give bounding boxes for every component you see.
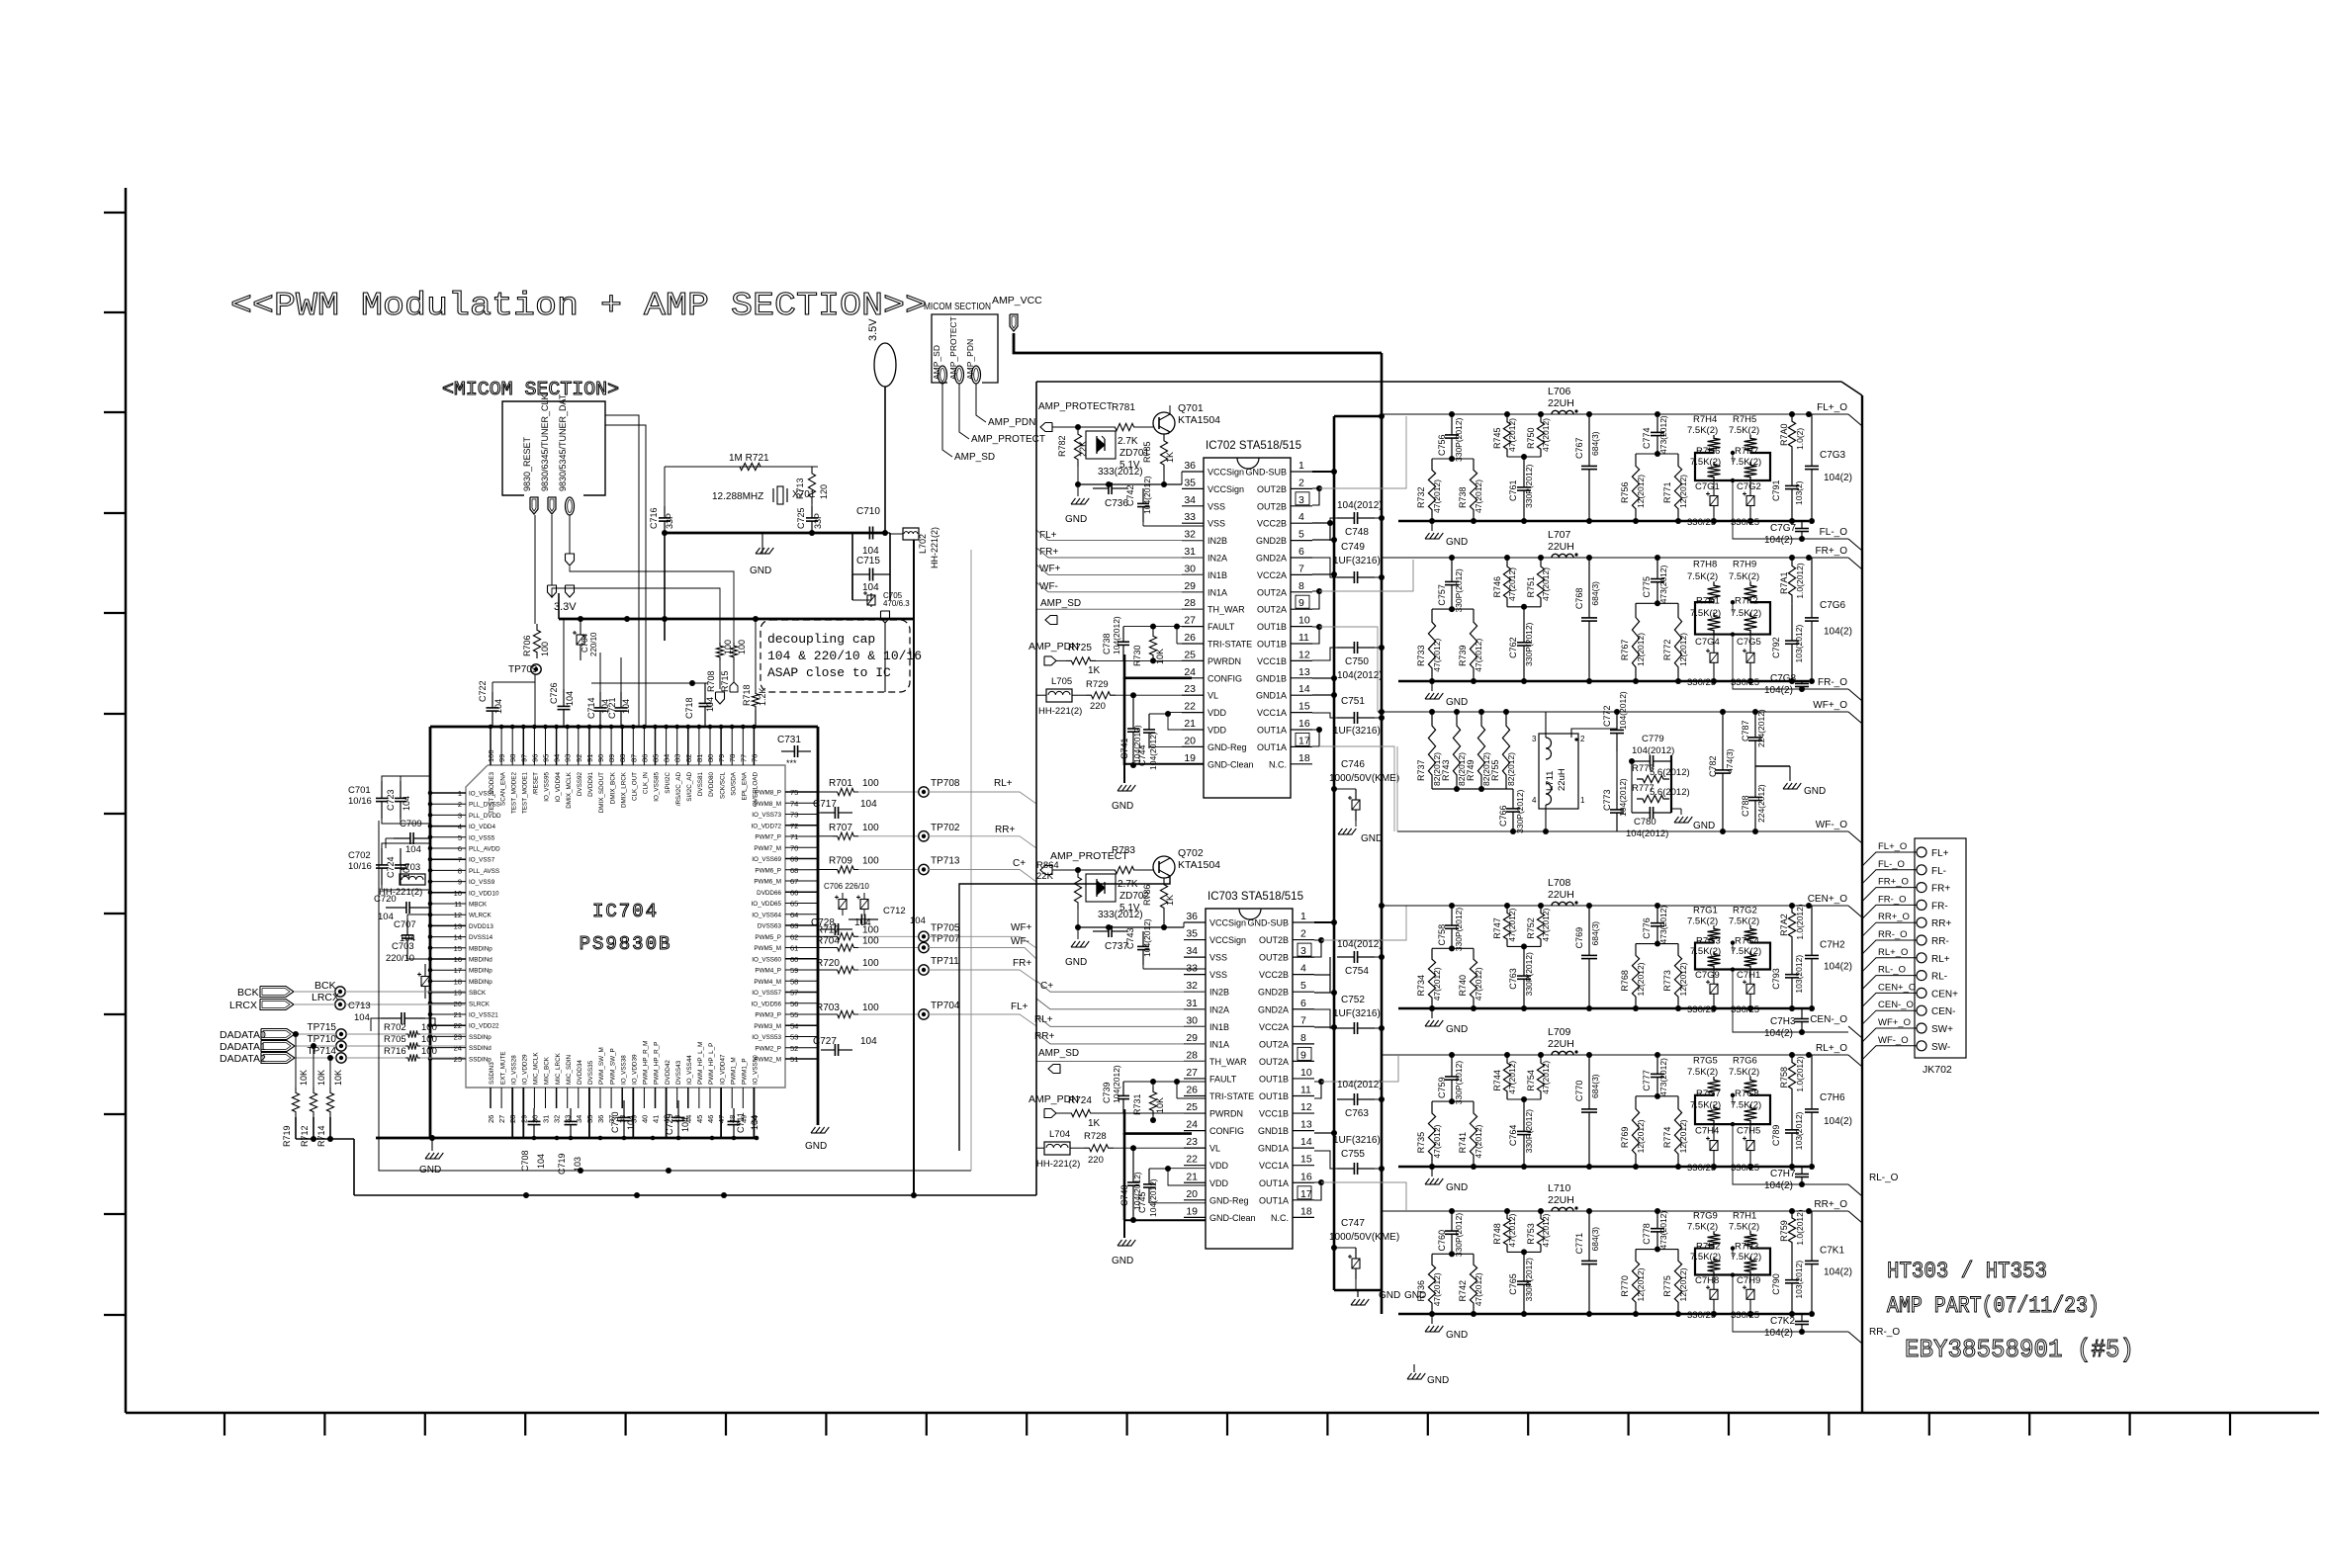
wire RR minus drop (1733, 1275, 1770, 1332)
svg-text:76: 76 (750, 754, 759, 762)
IC704 pin 24 SSDINd (430, 1047, 466, 1049)
IC704 pin 97 TEST_MODE1 (522, 727, 524, 765)
svg-text:45: 45 (695, 1115, 704, 1123)
svg-text:RL+_O: RL+_O (1878, 947, 1908, 958)
svg-text:C770: C770 (1574, 1081, 1584, 1102)
svg-text:1UF(3216): 1UF(3216) (1333, 1008, 1381, 1019)
svg-text:VCC2B: VCC2B (1257, 519, 1287, 529)
wire CEN-_O to JK702 (1862, 1010, 1917, 1024)
capacitor C728 104 (821, 928, 835, 930)
svg-text:GND: GND (1065, 957, 1087, 968)
svg-text:HT303 / HT353: HT303 / HT353 (1887, 1259, 2047, 1284)
IC702 pin 36 VCCSign (1182, 471, 1204, 473)
svg-text:100: 100 (862, 1002, 879, 1013)
IC704 pin 15 MBDINp (430, 947, 466, 949)
svg-text:9: 9 (1300, 1049, 1306, 1061)
decoupling cap note box (760, 620, 910, 692)
wire OUT1B to WF filter (1319, 627, 1378, 712)
IC704 pin 90 DMIX_SDOUT (599, 727, 601, 765)
svg-text:R708: R708 (706, 670, 716, 692)
IC702 pin 3 OUT2B (1291, 505, 1312, 507)
node bar CEN c1 (1432, 947, 1474, 949)
svg-text:DVDD42: DVDD42 (665, 1060, 671, 1085)
wire L711 out right top (1571, 729, 1617, 738)
IC702 pin 22 VDD (1182, 712, 1204, 714)
svg-text:104(2012): 104(2012) (1337, 500, 1383, 511)
svg-text:ASAP close to IC: ASAP close to IC (767, 665, 891, 680)
svg-text:R735: R735 (1416, 1132, 1426, 1154)
svg-text:27: 27 (1186, 1067, 1198, 1079)
svg-text:104: 104 (750, 1115, 760, 1130)
svg-text:104: 104 (493, 699, 503, 714)
svg-text:30: 30 (1186, 1014, 1198, 1026)
svg-text:C793: C793 (1771, 968, 1781, 990)
IC704 pin 54 PWM3_M (785, 1024, 818, 1026)
svg-text:120: 120 (819, 484, 829, 499)
svg-text:1.0(2012): 1.0(2012) (1795, 904, 1805, 940)
svg-text:R707: R707 (829, 823, 852, 833)
svg-text:IN1B: IN1B (1208, 570, 1227, 580)
op-amp IC703 STA518/515 body (1206, 909, 1293, 1249)
node bar FL c1 (1432, 458, 1474, 460)
svg-text:GND: GND (1361, 833, 1383, 844)
svg-text:VCCSign: VCCSign (1209, 918, 1246, 928)
wire DADATA2 branch down (329, 1058, 331, 1088)
svg-text:R7H1: R7H1 (1733, 1211, 1756, 1222)
IC703 pin 29 IN1A (1184, 1043, 1206, 1045)
ground amp rails bottom (1357, 1290, 1359, 1297)
svg-text:PWM3_M: PWM3_M (754, 1023, 781, 1030)
svg-text:12: 12 (454, 911, 462, 919)
filter FL bottom bus (1398, 520, 1809, 522)
svg-text:104(2): 104(2) (1764, 685, 1793, 696)
wire AMP_PDN down (976, 384, 986, 422)
svg-text:IO_VDD47: IO_VDD47 (719, 1054, 726, 1085)
svg-text:IO_VSS60: IO_VSS60 (752, 956, 781, 963)
svg-text:DMIX_MCLK: DMIX_MCLK (566, 771, 573, 809)
svg-text:9: 9 (1298, 597, 1304, 609)
wire FR+_O to JK702 (1862, 888, 1917, 902)
svg-text:104(2012): 104(2012) (1618, 778, 1628, 817)
svg-text:WF+: WF+ (1039, 564, 1061, 574)
svg-text:14: 14 (454, 933, 462, 942)
wire 895 down to amp region (884, 623, 886, 692)
svg-text:104: 104 (565, 691, 575, 706)
svg-text:86: 86 (640, 754, 649, 762)
resistor R721 1M (734, 463, 766, 470)
svg-text:330P(2012): 330P(2012) (1515, 789, 1525, 833)
wire FR-_O to JK702 (1862, 905, 1917, 918)
svg-text:FR+: FR+ (1931, 884, 1950, 895)
svg-text:1: 1 (458, 789, 462, 798)
svg-text:31: 31 (1184, 546, 1196, 558)
svg-text:SLRCK: SLRCK (469, 1001, 491, 1007)
IC704 pin 42 DVDD42 (666, 1088, 668, 1138)
svg-text:10: 10 (1298, 615, 1310, 627)
wire loop thin bottom (379, 821, 971, 1171)
wire GND2B stub (1312, 539, 1334, 541)
IC704 pin 62 PWM5_P (785, 935, 818, 937)
svg-text:1000/50V(KME): 1000/50V(KME) (1329, 1232, 1399, 1243)
IC703 pin 6 GND2A (1293, 1008, 1314, 1010)
IC702 pin 18 N.C. (1291, 763, 1312, 765)
svg-text:TP710: TP710 (308, 1034, 337, 1045)
svg-text:15: 15 (1298, 701, 1310, 713)
svg-text:MBDINp: MBDINp (469, 979, 492, 986)
svg-text:GND-Reg: GND-Reg (1208, 742, 1247, 752)
svg-text:R864: R864 (1036, 860, 1059, 871)
svg-text:C764: C764 (1508, 1125, 1518, 1147)
IC703 pin 36 VCCSign (1184, 921, 1206, 923)
svg-text:104: 104 (626, 1115, 636, 1130)
svg-text:104(2012): 104(2012) (1337, 670, 1383, 681)
svg-text:R743: R743 (1441, 759, 1451, 781)
wire OUT1B join IC703 (1314, 1082, 1321, 1098)
svg-text:13: 13 (454, 921, 462, 930)
svg-text:R715: R715 (720, 670, 730, 692)
svg-text:8: 8 (458, 866, 462, 875)
svg-text:C772: C772 (1602, 705, 1612, 727)
wire VCCSign row (1078, 483, 1182, 485)
node bar CEN r3r4 (1507, 945, 1541, 947)
wire CEN minus out (1770, 1031, 1848, 1033)
svg-text:12.288MHZ: 12.288MHZ (712, 491, 763, 502)
wire WF top to L711 (1545, 712, 1547, 738)
svg-text:684(3): 684(3) (1590, 921, 1600, 946)
svg-text:104(2): 104(2) (1824, 962, 1852, 973)
svg-text:9830_RESET: 9830_RESET (522, 436, 532, 491)
net CEN+_O exit (1848, 906, 1862, 917)
JK702 pin SW- (1917, 1041, 1926, 1051)
ground below C737 (1077, 927, 1079, 939)
svg-text:GND1B: GND1B (1258, 1126, 1289, 1136)
IC704 pin 25 SSDINp (430, 1058, 466, 1060)
svg-text:VCCSign: VCCSign (1208, 484, 1244, 494)
IC704 pin 88 DMIX_LRCK (621, 727, 623, 765)
micom pin AMP_PROTECT (955, 366, 964, 384)
svg-text:4: 4 (1532, 796, 1537, 805)
svg-text:36: 36 (596, 1115, 605, 1123)
svg-text:RR-_O: RR-_O (1878, 929, 1908, 940)
svg-text:81: 81 (695, 754, 704, 762)
svg-text:1M R721: 1M R721 (729, 453, 769, 464)
IC704 pin 92 DVSS92 (578, 727, 580, 765)
svg-text:6: 6 (1300, 998, 1306, 1009)
border tick left 4 (104, 512, 126, 514)
wire AMP_PROTECT down (959, 384, 969, 439)
svg-text:12(2012): 12(2012) (1678, 633, 1688, 666)
svg-text:1.0(2): 1.0(2) (1795, 428, 1805, 450)
svg-text:4: 4 (458, 823, 462, 831)
svg-text:R772: R772 (1662, 640, 1672, 661)
svg-text:27: 27 (1184, 615, 1196, 627)
wire VCCSign row IC703 (1078, 926, 1184, 928)
wire 10K bottom bus (296, 1138, 354, 1140)
svg-text:104(2): 104(2) (1824, 1116, 1852, 1127)
svg-text:91: 91 (585, 754, 594, 762)
svg-text:PWM_SW_M: PWM_SW_M (598, 1047, 605, 1085)
svg-text:R744: R744 (1492, 1070, 1502, 1091)
wire FL+ to IN2A IC703 (1036, 999, 1206, 1009)
svg-text:C723: C723 (386, 789, 396, 811)
svg-text:EXT_MUTE: EXT_MUTE (499, 1051, 506, 1085)
border tick left 1 (104, 212, 126, 214)
svg-text:L705: L705 (1051, 676, 1072, 687)
svg-text:GND: GND (1427, 1375, 1449, 1386)
svg-text:C791: C791 (1771, 479, 1781, 501)
svg-text:VCC1B: VCC1B (1259, 1109, 1289, 1119)
svg-text:FR+: FR+ (1013, 958, 1031, 969)
svg-text:C738: C738 (1102, 633, 1112, 654)
svg-text:65: 65 (790, 900, 798, 909)
svg-text:PWM1_M: PWM1_M (730, 1057, 737, 1085)
IC702 pin 14 GND1A (1291, 694, 1312, 696)
svg-text:47(2012): 47(2012) (1432, 639, 1442, 672)
svg-text:13: 13 (1298, 666, 1310, 678)
IC704 pin 49 PWM1_P (742, 1088, 744, 1108)
svg-text:12(2012): 12(2012) (1678, 475, 1688, 508)
svg-text:PWM6_P: PWM6_P (755, 867, 781, 874)
resistor R712 10K (310, 1088, 316, 1117)
wire FR minus drop (1733, 635, 1770, 689)
wire RL+_O to JK702 (1862, 958, 1917, 972)
svg-text:C769: C769 (1574, 927, 1584, 949)
svg-text:WLRCK: WLRCK (469, 913, 492, 919)
wire WF+_O to JK702 (1862, 1028, 1917, 1042)
svg-text:330/25: 330/25 (1731, 1163, 1759, 1174)
svg-text:JK702: JK702 (1923, 1064, 1952, 1076)
wire TUNER_CLK stub (551, 515, 553, 585)
svg-text:23: 23 (1184, 683, 1196, 695)
svg-text:CONFIG: CONFIG (1209, 1126, 1244, 1136)
svg-text:R725: R725 (1068, 643, 1092, 653)
svg-text:C7H3: C7H3 (1770, 1016, 1796, 1027)
wire WF right bars (1631, 761, 1633, 813)
border tick left 3 (104, 411, 126, 413)
net FR+_O exit (1848, 558, 1862, 569)
svg-text:25: 25 (454, 1055, 462, 1064)
border tick left 2 (104, 311, 126, 313)
svg-text:OUT2B: OUT2B (1257, 484, 1287, 494)
wire FL+ TP704 to bus (929, 1014, 1036, 1026)
micom pin TUNER_DAT (566, 497, 575, 515)
svg-text:224(2012): 224(2012) (1756, 784, 1766, 823)
wire OUT2A join (1312, 591, 1319, 609)
svg-text:SSDIN3: SSDIN3 (489, 1062, 495, 1085)
svg-text:7.5K(2): 7.5K(2) (1687, 1067, 1718, 1078)
svg-text:C7K1: C7K1 (1820, 1245, 1844, 1256)
wire WF- TP707 to bus (929, 948, 1036, 960)
IC704 pin 99 SCAN_ENA (500, 727, 502, 765)
svg-text:R7H9: R7H9 (1733, 559, 1756, 569)
IC704 pin 2 PLL_DVSS (430, 803, 466, 805)
net arrow TUNER_DAT 1 (566, 554, 575, 566)
IC704 top bus (430, 726, 818, 729)
IC703 pin 26 TRI-STATE (1184, 1095, 1206, 1097)
svg-text:R728: R728 (1084, 1131, 1107, 1142)
svg-text:224(2012): 224(2012) (1756, 709, 1766, 747)
svg-text:N.C.: N.C. (1269, 759, 1287, 769)
svg-text:54: 54 (790, 1021, 798, 1030)
IC704 pin 44 IO_VSS44 (687, 1088, 689, 1108)
svg-text:DMIX_SDOUT: DMIX_SDOUT (598, 772, 605, 813)
IC704 pin 16 MBDINd (430, 958, 466, 960)
svg-text:GND1B: GND1B (1256, 673, 1287, 683)
svg-text:1: 1 (1580, 796, 1585, 805)
svg-text:330P(2012): 330P(2012) (1454, 1213, 1464, 1258)
svg-text:EPL_ENA: EPL_ENA (742, 771, 749, 800)
IC704 pin 5 IO_VSS5 (430, 836, 466, 838)
IC704 pin 52 PWM2_P (785, 1047, 818, 1049)
filter FR bottom bus (1398, 680, 1809, 682)
svg-text:30: 30 (1184, 563, 1196, 574)
svg-text:74: 74 (790, 799, 798, 808)
wire GND-Clean thick IC703 (1124, 1219, 1206, 1221)
wire RL 7.5K network (1695, 1095, 1770, 1124)
svg-text:100: 100 (540, 642, 550, 656)
svg-text:C740: C740 (1119, 1184, 1129, 1206)
svg-text:X701: X701 (792, 489, 816, 500)
svg-text:2: 2 (1580, 735, 1585, 743)
IC703 pin 8 OUT2A (1293, 1043, 1314, 1045)
svg-text:C747: C747 (1341, 1218, 1365, 1229)
svg-text:RL-_O: RL-_O (1869, 1173, 1899, 1183)
svg-text:55: 55 (790, 1010, 798, 1019)
svg-text:R769: R769 (1620, 1127, 1630, 1149)
svg-text:WF+: WF+ (1011, 922, 1032, 933)
svg-text:C725: C725 (796, 507, 806, 529)
svg-text:IN2B: IN2B (1209, 988, 1229, 998)
svg-text:R748: R748 (1492, 1223, 1502, 1245)
IC703 pin 1 GND-SUB (1293, 921, 1314, 923)
wire C+ TP713 to bus (929, 870, 1036, 883)
wire CEN 7.5K network (1695, 943, 1770, 970)
svg-text:104(2): 104(2) (1764, 1028, 1793, 1039)
svg-text:CEN-_O: CEN-_O (1878, 1000, 1914, 1010)
svg-text:22UH: 22UH (1548, 397, 1574, 409)
resistor R715 100 (730, 643, 737, 660)
ground WF mid (1680, 809, 1682, 815)
svg-text:104: 104 (860, 799, 877, 810)
svg-text:R773: R773 (1662, 970, 1672, 992)
svg-text:VCCSign: VCCSign (1209, 935, 1246, 945)
svg-text:22UH: 22UH (1548, 1038, 1574, 1050)
IC703 pin 14 GND1A (1293, 1147, 1314, 1149)
svg-text:HH-221(2): HH-221(2) (930, 527, 939, 568)
svg-text:C763: C763 (1345, 1108, 1369, 1119)
svg-text:1.2K: 1.2K (758, 687, 767, 706)
IC704 pin 94 IO_VDD94 (556, 727, 558, 765)
svg-text:104: 104 (854, 917, 871, 928)
svg-text:C7G6: C7G6 (1820, 600, 1846, 611)
wire L711 bottom to WF minus (1545, 805, 1547, 831)
svg-text:TP711: TP711 (931, 956, 959, 967)
svg-text:SSDINd: SSDINd (469, 1045, 492, 1052)
wire WF inner rail (1616, 751, 1618, 791)
WF top wire (1378, 711, 1848, 713)
svg-text:12(2012): 12(2012) (1636, 1119, 1646, 1153)
svg-text:22uH: 22uH (1557, 768, 1567, 791)
capacitor C711 104 (733, 1108, 735, 1121)
IC704 pin 30 MIC_MCLK (533, 1088, 535, 1108)
IC702 pin 34 VSS (1182, 505, 1204, 507)
svg-text:GND: GND (805, 1141, 827, 1152)
svg-text:47(2012): 47(2012) (1541, 1213, 1551, 1247)
IC702 pin 5 GND2B (1291, 540, 1312, 542)
svg-text:MBDINd: MBDINd (469, 957, 492, 964)
svg-text:C768: C768 (1574, 588, 1584, 610)
svg-text:C718: C718 (684, 697, 694, 719)
IC703 pin 28 TH_WAR (1184, 1060, 1206, 1062)
svg-text:PWM4_P: PWM4_P (755, 968, 781, 975)
svg-text:PWM8_M: PWM8_M (754, 801, 781, 808)
svg-text:R732: R732 (1416, 486, 1426, 508)
wire RL-_O to JK702 (1862, 976, 1917, 990)
svg-text:IO_VSS95: IO_VSS95 (544, 772, 551, 802)
connector JK702 body (1915, 838, 1966, 1058)
IC704 pin 74 PWM8_M (785, 802, 818, 804)
svg-text:3.3V: 3.3V (554, 601, 577, 613)
svg-text:R718: R718 (742, 684, 752, 706)
svg-text:PWM5_M: PWM5_M (754, 945, 781, 952)
wire RR+ TP702 to bus (929, 836, 1036, 848)
wire GND-Reg (1149, 745, 1204, 747)
IC703 pin 22 VDD (1184, 1165, 1206, 1167)
svg-text:17: 17 (1298, 735, 1310, 746)
resistor R719 10K (292, 1088, 299, 1117)
IC702 pin 7 VCC2A (1291, 573, 1312, 575)
svg-text:473(2012): 473(2012) (1658, 565, 1668, 603)
svg-text:61: 61 (790, 944, 798, 953)
wire FL-_O to JK702 (1862, 870, 1917, 884)
svg-text:CEN+: CEN+ (1931, 989, 1958, 1000)
svg-text:100: 100 (862, 778, 879, 789)
IC704 pin 47 IO_VDD47 (720, 1088, 722, 1138)
IC704 pin 69 IO_VSS69 (785, 858, 818, 860)
IC704 pin 63 DVSS63 (785, 924, 818, 926)
svg-text:35: 35 (1184, 477, 1196, 488)
svg-text:333(2012): 333(2012) (1098, 467, 1143, 478)
capacitor C705 470/6.3 (870, 593, 872, 595)
svg-text:20: 20 (1184, 735, 1196, 746)
svg-text:L702: L702 (918, 534, 928, 554)
net FL+_O exit (1848, 414, 1862, 426)
svg-text:C7H7: C7H7 (1770, 1169, 1796, 1179)
wire CEN+_O to JK702 (1862, 993, 1917, 1006)
svg-text:SSDINp: SSDINp (469, 1034, 492, 1041)
svg-text:IO_VSS64: IO_VSS64 (752, 912, 781, 918)
svg-text:12: 12 (1300, 1101, 1312, 1113)
wire OUT2B to CEN filter (1321, 906, 1406, 940)
svg-text:C754: C754 (1345, 966, 1369, 977)
svg-text:C711: C711 (736, 1112, 746, 1133)
svg-text:104(2012): 104(2012) (1112, 616, 1121, 654)
svg-text:C707: C707 (394, 919, 416, 930)
svg-text:GND2A: GND2A (1256, 554, 1287, 564)
IC702 pin 30 IN1B (1182, 573, 1204, 575)
svg-text:R775: R775 (1662, 1275, 1672, 1297)
svg-text:SO/SDA: SO/SDA (730, 771, 737, 796)
capacitor C708 104 (533, 1108, 535, 1121)
svg-text:29: 29 (1186, 1032, 1198, 1044)
svg-text:71: 71 (790, 832, 798, 841)
svg-text:17: 17 (1300, 1188, 1312, 1200)
svg-text:PWM8_P: PWM8_P (755, 790, 781, 797)
IC704 pin 75 PWM8_P (785, 791, 818, 793)
svg-text:SI/I2C_AD: SI/I2C_AD (686, 772, 693, 802)
svg-text:104(2012): 104(2012) (1337, 1080, 1383, 1090)
svg-text:1.0(2012): 1.0(2012) (1795, 1056, 1805, 1092)
